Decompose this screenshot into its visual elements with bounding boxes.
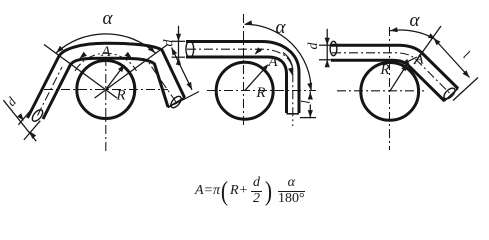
fig2 alpha dimension arc xyxy=(245,24,312,91)
fig3 R arrowhead xyxy=(401,64,407,72)
fig3 l bottom arrowhead xyxy=(463,70,470,77)
svg-text:d: d xyxy=(162,39,177,47)
fig2 d extension line top xyxy=(172,40,186,42)
fig1 left leg centerline xyxy=(38,67,63,116)
fig1 right tube end ellipse xyxy=(169,94,183,109)
fig3 l end-face extension line xyxy=(453,78,478,101)
fig2 tube bottom/inner wall xyxy=(186,57,287,113)
fig1 alpha right arrowhead xyxy=(148,46,155,53)
fig2 R radius arrow line xyxy=(245,65,268,90)
fig3 tube top/outer wall xyxy=(331,45,458,88)
fig1 bend centerline arc xyxy=(75,53,136,71)
fig2 horizontal centerline xyxy=(207,90,316,92)
fig2 tube top/outer wall xyxy=(186,42,299,114)
fig1 d upper arrowhead xyxy=(17,113,24,121)
svg-text:l: l xyxy=(298,100,313,104)
fig1 d lower arrowhead xyxy=(30,131,37,139)
fig1 l bottom arrowhead xyxy=(186,82,192,90)
formula A = pi (R + d/2) alpha/180deg xyxy=(195,176,307,206)
fig2 l dimension line xyxy=(309,91,311,99)
fig3 l label xyxy=(461,47,473,62)
fig1 d extension line 1 xyxy=(18,107,33,125)
fig3 vertical centerline xyxy=(389,27,391,150)
fig3 l dimension line xyxy=(434,38,470,78)
svg-text:α: α xyxy=(410,10,421,31)
fig1 l label xyxy=(168,65,178,80)
fig1 A dim left arrowhead xyxy=(80,52,87,59)
fig2 l label xyxy=(298,100,313,104)
fig3 d extension line bottom xyxy=(319,59,332,61)
fig1 left tube end face ellipse xyxy=(30,108,44,123)
fig3 horizontal centerline xyxy=(337,90,424,92)
svg-text:A: A xyxy=(413,52,424,68)
fig3 roller circle xyxy=(361,63,419,121)
svg-text:l: l xyxy=(168,65,178,80)
fig1 d label xyxy=(3,94,19,109)
fig1 tube outer wall xyxy=(28,43,185,118)
fig2 d dimension line xyxy=(178,26,180,66)
fig3 alpha dimension arc xyxy=(390,30,436,39)
svg-text:R: R xyxy=(115,88,125,104)
svg-text:d: d xyxy=(3,94,19,109)
fig1 l dimension line xyxy=(172,48,193,90)
fig3 alpha left arrowhead xyxy=(390,27,398,32)
fig2 alpha top arrowhead xyxy=(245,20,253,25)
svg-text:l: l xyxy=(461,47,473,62)
svg-text:R: R xyxy=(255,85,265,101)
fig1 tube inner wall xyxy=(43,58,168,119)
fig1 d extension line 2 xyxy=(24,121,40,140)
fig2 R arrowhead xyxy=(262,64,269,71)
fig2 d bottom arrowhead xyxy=(176,57,181,64)
fig2 d label xyxy=(162,39,177,47)
fig2 l bottom extension line xyxy=(300,117,316,119)
fig1 d dimension line xyxy=(3,100,36,141)
fig2 l dimension line 2 xyxy=(309,105,311,119)
svg-text:A: A xyxy=(100,44,111,60)
fig2 d extension line bottom xyxy=(172,56,186,58)
fig2 A dim arc left xyxy=(255,49,262,54)
fig3 bend-end radial extension line xyxy=(414,26,441,64)
fig3 tube centerline xyxy=(332,53,451,95)
fig3 l top arrowhead xyxy=(434,38,441,45)
fig1 left radial extension line xyxy=(44,45,117,99)
fig1 right leg centerline xyxy=(149,63,176,102)
fig2 l top arrowhead xyxy=(308,92,313,100)
svg-text:R: R xyxy=(379,62,389,78)
fig2 A left arrowhead xyxy=(255,47,262,54)
fig2 alpha bottom arrowhead xyxy=(307,83,312,91)
fig3 d top arrowhead xyxy=(325,38,330,46)
fig1 roller circle xyxy=(77,61,135,119)
fig3 d dimension line xyxy=(326,29,328,67)
fig2 tube left end ellipse xyxy=(186,41,194,58)
fig2 d top arrowhead xyxy=(176,34,181,42)
fig1 alpha left arrowhead xyxy=(56,46,63,53)
fig1 alpha dimension arc xyxy=(56,34,155,53)
fig2 A dim arc right xyxy=(283,53,293,75)
fig1 right radial extension line xyxy=(95,45,168,99)
fig1 A dim right arrowhead xyxy=(125,52,132,59)
fig1 vertical centerline xyxy=(105,57,107,154)
fig3 d bottom arrowhead xyxy=(325,60,330,68)
fig2 tube bottom end face xyxy=(287,113,300,115)
fig3 d label xyxy=(306,42,321,50)
fig1 R radius arrow line xyxy=(106,66,123,89)
svg-text:α: α xyxy=(276,17,287,38)
fig1 right tube end face line xyxy=(168,97,185,107)
svg-text:d: d xyxy=(306,42,321,50)
fig3 d extension line top xyxy=(319,44,332,46)
fig3 leg end face line xyxy=(444,88,458,101)
fig3 A arrowhead xyxy=(402,59,410,65)
fig3 alpha right arrowhead xyxy=(428,33,436,39)
svg-text:A: A xyxy=(267,54,278,70)
fig2 roller circle xyxy=(216,62,273,119)
fig3 tube left end ellipse xyxy=(330,41,337,55)
fig2 A right arrowhead xyxy=(288,68,293,76)
fig2 tube centerline xyxy=(187,49,293,126)
fig1 l end-face extension line xyxy=(174,92,199,105)
fig3 A leader line xyxy=(403,57,417,64)
fig3 tube bottom/inner wall xyxy=(331,60,445,101)
fig1 l top arrowhead xyxy=(172,48,178,56)
fig2 vertical centerline xyxy=(243,14,245,126)
fig1 R arrowhead xyxy=(118,65,125,73)
fig3 R radius arrow line xyxy=(390,65,407,91)
fig3 leg end ellipse xyxy=(442,86,457,101)
fig2 l bottom arrowhead xyxy=(308,110,313,118)
svg-text:α: α xyxy=(103,8,114,29)
fig1 horizontal centerline xyxy=(44,89,168,91)
